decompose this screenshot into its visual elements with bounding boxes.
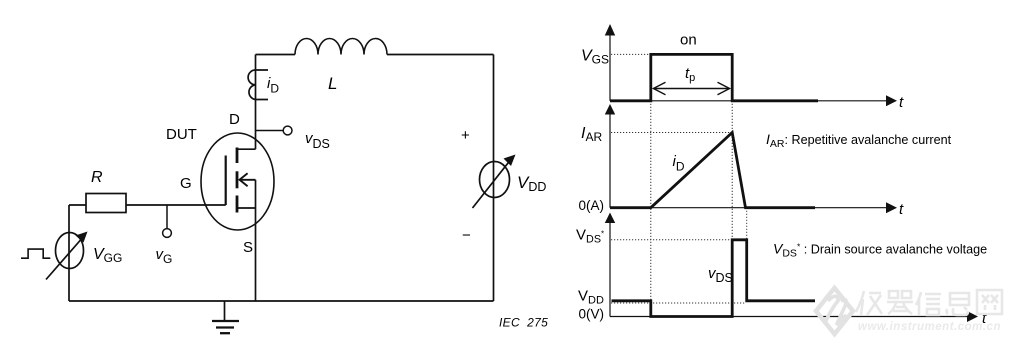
mosfet channel segments bbox=[236, 148, 239, 213]
plot2 vertical axis bbox=[605, 104, 615, 208]
inductor L bbox=[295, 39, 387, 55]
svg-text:0(A): 0(A) bbox=[579, 198, 605, 213]
wire: top rail left segment bbox=[256, 54, 296, 56]
plot3 dotted VDS* level bbox=[611, 239, 731, 241]
svg-text:VDS*: VDS* bbox=[576, 227, 604, 246]
plot3 time axis bbox=[610, 311, 978, 322]
svg-text:DUT: DUT bbox=[166, 126, 197, 143]
svg-text:on: on bbox=[680, 32, 697, 49]
svg-text:iD: iD bbox=[673, 153, 685, 174]
pulse symbol bbox=[21, 249, 50, 258]
svg-text:−: − bbox=[462, 227, 471, 244]
wire: drain vertical bbox=[255, 55, 257, 150]
svg-text:IEC 275: IEC 275 bbox=[499, 316, 548, 330]
plot2 dotted IAR level bbox=[611, 132, 732, 134]
plot1 dotted VGS level bbox=[611, 53, 651, 55]
plot2 time axis bbox=[610, 202, 897, 213]
current probe iD bbox=[248, 70, 268, 100]
svg-text:IAR: IAR bbox=[581, 125, 602, 144]
dotted guide vertical at pulse end bbox=[731, 101, 733, 317]
plot1 vertical axis bbox=[605, 24, 615, 101]
arrowhead of VGG arrow bbox=[76, 232, 88, 243]
mosfet source connection bbox=[237, 207, 256, 209]
tp width arrow bbox=[653, 82, 729, 94]
svg-text:G: G bbox=[180, 175, 192, 192]
svg-text:t: t bbox=[899, 94, 904, 111]
mosfet gate bar bbox=[225, 156, 227, 206]
watermark logo diamond bbox=[816, 288, 853, 334]
signal iD ramp bbox=[610, 133, 815, 208]
svg-text:t: t bbox=[899, 201, 904, 218]
plot3 vertical axis bbox=[605, 213, 615, 317]
node vG terminal bbox=[163, 205, 172, 237]
svg-text:S: S bbox=[243, 239, 253, 256]
dotted guide vertical at pulse start bbox=[650, 101, 652, 317]
node vDS terminal bbox=[256, 126, 293, 135]
svg-text:VDD: VDD bbox=[578, 288, 604, 307]
svg-text:L: L bbox=[328, 74, 337, 93]
transistor DUT (MOSFET) envelope bbox=[201, 133, 274, 230]
mosfet drain connection bbox=[237, 148, 256, 150]
signal VGS pulse bbox=[610, 54, 818, 100]
svg-text:iD: iD bbox=[267, 75, 279, 96]
svg-text:R: R bbox=[91, 169, 103, 186]
resistor R bbox=[86, 194, 126, 213]
svg-text:D: D bbox=[229, 111, 240, 128]
plot3 dotted VDD level bbox=[611, 302, 746, 304]
svg-text:0(V): 0(V) bbox=[579, 307, 605, 322]
mosfet body tie bbox=[255, 180, 257, 208]
dotted guide vertical at avalanche end bbox=[746, 208, 748, 240]
wire: right vertical rail bbox=[493, 55, 495, 302]
wire: VGG to resistor bbox=[69, 204, 86, 206]
svg-text:VDD: VDD bbox=[517, 173, 546, 194]
plot1 time axis bbox=[610, 95, 897, 106]
wire: gate wire bbox=[126, 204, 226, 206]
source VGG (adjustable pulse generator) bbox=[46, 233, 84, 280]
arrowhead of VDD arrow bbox=[504, 155, 516, 167]
svg-text:vDS: vDS bbox=[305, 130, 330, 151]
mosfet body arrow bbox=[240, 173, 256, 186]
svg-text:+: + bbox=[461, 127, 470, 144]
svg-text:VGS: VGS bbox=[581, 48, 609, 67]
signal vDS bbox=[612, 240, 816, 317]
svg-text:VDS* : Drain source avalanche: VDS* : Drain source avalanche voltage bbox=[773, 241, 987, 260]
svg-text:vG: vG bbox=[156, 246, 173, 266]
svg-text:VGG: VGG bbox=[93, 246, 122, 265]
wire: bottom rail bbox=[69, 300, 494, 302]
svg-text:vDS: vDS bbox=[708, 265, 733, 285]
svg-text:tp: tp bbox=[685, 65, 695, 84]
svg-text:IAR: Repetitive avalanche cur: IAR: Repetitive avalanche current bbox=[766, 131, 952, 150]
ground bbox=[212, 301, 239, 333]
wire: left vertical rail bbox=[68, 205, 70, 301]
wire: top rail right segment bbox=[387, 54, 494, 56]
watermark text (stylized CJK approximations) bbox=[856, 290, 1002, 315]
source VDD (adjustable DC supply) bbox=[473, 161, 511, 209]
wire: source vertical bbox=[255, 208, 257, 301]
svg-text:www.instrument.com.cn: www.instrument.com.cn bbox=[858, 321, 1001, 333]
